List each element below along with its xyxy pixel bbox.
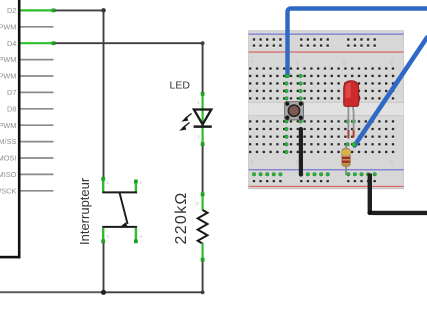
resistor R1 bottom green lead bbox=[202, 243, 204, 262]
blue wire W1 from Arduino (top) to button column bbox=[288, 9, 427, 76]
LED LED1 highlight bbox=[346, 83, 351, 98]
svg-text:PWM: PWM bbox=[0, 121, 16, 130]
resistor R1 band red 1 bbox=[342, 157, 350, 160]
svg-text:PWM: PWM bbox=[0, 22, 16, 31]
svg-text:5: 5 bbox=[249, 160, 254, 163]
breadboard bottom rail blue line bbox=[249, 169, 404, 170]
blue wire W2 tip hole (green) bbox=[352, 142, 356, 146]
switch S1 top-right terminal (green) bbox=[135, 180, 137, 192]
pin D8 stub bbox=[21, 108, 54, 110]
svg-text:WM/SS: WM/SS bbox=[0, 137, 16, 146]
svg-text:PWM: PWM bbox=[0, 55, 16, 64]
blue wire W1 tip hole (green) bbox=[286, 74, 290, 78]
wire D4 corner down to LED anode bbox=[202, 43, 204, 92]
ground junction dot bbox=[101, 290, 106, 295]
resistor R1 zigzag bbox=[198, 210, 208, 244]
breadboard top rail blue line bbox=[249, 34, 404, 35]
resistor R1 top green lead bbox=[202, 192, 204, 211]
LED LED1 triangle bbox=[194, 110, 211, 125]
LED LED1 cathode bar bbox=[194, 125, 212, 128]
LED emission arrow 1 bbox=[181, 114, 191, 122]
svg-text:MISO: MISO bbox=[0, 170, 17, 179]
svg-text:D4: D4 bbox=[7, 39, 16, 48]
resistor R1 pin2 terminal blob bbox=[201, 258, 205, 262]
LED LED1 green lead through symbol bbox=[202, 92, 204, 146]
pin MOSI stub bbox=[21, 157, 54, 159]
svg-text:20: 20 bbox=[389, 160, 394, 166]
svg-text:D2: D2 bbox=[7, 6, 16, 15]
pushbutton S1 (breadboard) body bbox=[285, 102, 304, 120]
LED LED1 leg tips (leads) bbox=[347, 130, 349, 139]
pushbutton S1 plunger bbox=[288, 105, 299, 116]
pin D4 stub (green highlighted net) bbox=[21, 42, 53, 44]
pin WM/SS stub bbox=[21, 141, 54, 143]
breadboard holes bbox=[249, 38, 394, 183]
bendpoint at D2 corner bbox=[101, 8, 106, 13]
svg-text:D7: D7 bbox=[7, 88, 16, 97]
svg-text:5: 5 bbox=[249, 60, 254, 63]
pushbutton S1 legs bbox=[285, 102, 303, 120]
wire resistor R1 to ground rail bbox=[104, 262, 203, 293]
wire switch S1 to ground rail bbox=[103, 243, 105, 292]
pin PWM stub bbox=[21, 26, 54, 28]
LED pin1 terminal blob bbox=[201, 92, 205, 96]
LED pin2 terminal blob bbox=[201, 142, 205, 146]
Arduino pin labels D2..SCK bbox=[0, 6, 17, 195]
svg-text:PWM: PWM bbox=[0, 72, 16, 81]
svg-text:220kΩ: 220kΩ bbox=[173, 191, 190, 244]
breadboard bottom rail GND holes (highlighted green) bbox=[252, 173, 376, 177]
resistor R1 (breadboard) leads bbox=[345, 144, 347, 175]
svg-text:MOSI: MOSI bbox=[0, 154, 16, 163]
LED LED1 (breadboard) body bbox=[344, 81, 359, 107]
switch S1 lever bbox=[120, 193, 128, 224]
resistor R1 pin1 terminal blob bbox=[201, 192, 205, 196]
resistor R1 band gold bbox=[342, 164, 350, 166]
switch S1 bottom-left terminal (green) bbox=[102, 228, 104, 243]
breadboard column number labels bbox=[249, 60, 394, 166]
pin D2 stub (green highlighted net) bbox=[21, 9, 53, 11]
black wire W4 bendpoint bbox=[367, 210, 372, 215]
black wire W3 button column to GND rail bbox=[299, 129, 303, 174]
switch S1 lever contact nub bbox=[121, 222, 128, 226]
switch S1 bottom bar bbox=[102, 226, 137, 228]
switch S1 top bar bbox=[102, 191, 137, 193]
bendpoint at D4 corner bbox=[201, 41, 205, 45]
svg-text:20: 20 bbox=[389, 60, 394, 66]
LED LED1 flange bbox=[359, 96, 360, 102]
Arduino header U1 bottom edge bbox=[0, 256, 21, 259]
svg-text:LED: LED bbox=[170, 80, 191, 92]
resistor R1 band yellow bbox=[342, 151, 350, 154]
blue wire W2 diagonal from Arduino to LED column bbox=[355, 38, 427, 146]
pin D7 stub bbox=[21, 91, 54, 93]
resistor R1 band red 2 bbox=[342, 160, 350, 163]
pin /SCK stub bbox=[21, 190, 54, 192]
pin PWM stub bbox=[21, 124, 54, 126]
Arduino header U1 right edge bbox=[18, 0, 21, 258]
switch S1 top-left terminal (green) bbox=[102, 177, 104, 192]
bendpoint at resistor ground corner bbox=[201, 290, 205, 294]
svg-text:D8: D8 bbox=[7, 104, 16, 113]
black wire W4 GND rail to Arduino (exits right) bbox=[370, 174, 427, 213]
pin MISO stub bbox=[21, 173, 54, 175]
highlighted net holes (button / wire columns) bbox=[285, 74, 356, 154]
breadboard top rail red line bbox=[249, 51, 404, 52]
wire D2 to switch (horizontal) bbox=[55, 9, 104, 11]
breadboard center channel bbox=[249, 103, 404, 116]
switch S1 bottom-right terminal (green) bbox=[135, 228, 137, 243]
wire D2 corner down to switch bbox=[103, 10, 105, 177]
ground wire from Arduino GND bbox=[0, 291, 104, 293]
LED emission arrow 2 bbox=[179, 123, 189, 131]
pin PWM stub bbox=[21, 75, 54, 77]
LED LED1 (breadboard) legs bbox=[347, 105, 349, 138]
svg-text:10: 10 bbox=[295, 60, 300, 66]
wire LED cathode to resistor R1 bbox=[202, 146, 204, 193]
svg-text:15: 15 bbox=[342, 60, 347, 66]
wire D4 to LED (horizontal) bbox=[55, 42, 203, 44]
breadboard body bbox=[249, 31, 404, 189]
resistor R1 (breadboard) body bbox=[342, 149, 350, 167]
svg-text:/SCK: /SCK bbox=[0, 186, 16, 195]
pin PWM stub bbox=[21, 59, 54, 61]
breadboard bottom rail red line bbox=[249, 186, 404, 187]
svg-text:Interrupteur: Interrupteur bbox=[77, 177, 92, 245]
